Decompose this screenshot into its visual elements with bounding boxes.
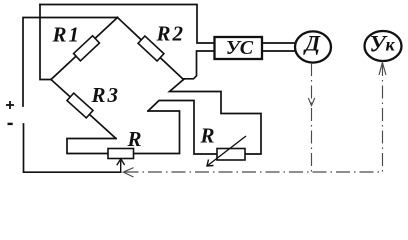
wire node R jog xyxy=(170,80,262,155)
svg-text:Ук: Ук xyxy=(370,32,396,57)
resistor R3 xyxy=(67,93,93,118)
svg-text:R1: R1 xyxy=(52,23,82,47)
wire jog to upper level xyxy=(148,101,217,155)
slidewire resistor R xyxy=(108,149,134,159)
motor D circle xyxy=(295,31,331,62)
sensor variable arrow xyxy=(207,136,246,166)
wire amplifier to motor lower xyxy=(262,50,296,52)
wire bridge arm T-R xyxy=(118,18,184,80)
wire slidewire right terminal xyxy=(134,111,180,154)
sensor resistor R xyxy=(217,149,245,161)
arrow left at slider xyxy=(123,168,133,177)
dash-dot mechanical links xyxy=(123,63,386,178)
wire bridge arm L-B with R3 xyxy=(51,80,116,139)
wire top rail xyxy=(40,5,215,44)
wire left outer vertical to node L xyxy=(40,5,51,80)
link motor shaft vertical xyxy=(311,63,313,172)
svg-text:УС: УС xyxy=(226,37,254,59)
arrow down on motor shaft xyxy=(308,98,314,106)
svg-text:R2: R2 xyxy=(156,22,186,46)
svg-text:Д: Д xyxy=(303,31,321,56)
link indicator vertical xyxy=(382,63,384,172)
resistor R1 xyxy=(74,36,100,61)
battery minus wire down to bottom xyxy=(24,124,121,172)
wire node B horizontal xyxy=(67,139,116,154)
label plus xyxy=(6,101,14,109)
wire bridge arm T-L xyxy=(51,18,118,80)
wire amplifier to motor upper xyxy=(262,42,296,44)
label minus xyxy=(8,123,13,125)
arrow up to indicator xyxy=(379,63,386,76)
indicator Uk ellipse xyxy=(365,31,402,61)
svg-text:R: R xyxy=(127,127,142,151)
slider wiper arrow xyxy=(117,159,125,172)
resistor R2 xyxy=(138,36,164,61)
link bottom horizontal xyxy=(125,171,383,173)
svg-text:R: R xyxy=(200,124,215,148)
svg-text:R3: R3 xyxy=(91,83,121,107)
amplifier US box xyxy=(215,37,263,59)
wire node R to amplifier lower input xyxy=(184,51,215,79)
wire battery plus rail to node T xyxy=(23,18,118,107)
